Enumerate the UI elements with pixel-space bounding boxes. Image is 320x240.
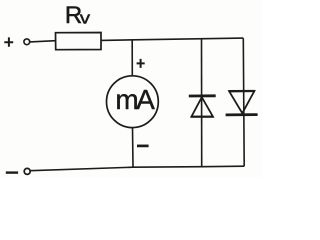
svg-text:mA: mA: [115, 84, 155, 115]
svg-text:v: v: [80, 9, 91, 28]
